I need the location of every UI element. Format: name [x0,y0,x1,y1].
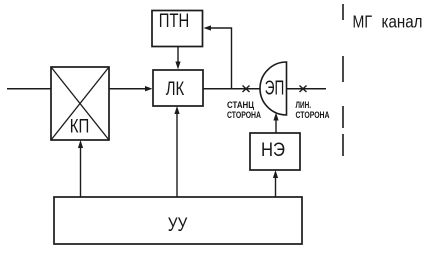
block NE (НЭ) [250,133,300,170]
label STANC STORONA [227,100,261,120]
svg-text:ПТН: ПТН [159,10,190,32]
svg-text:КП: КП [70,115,90,137]
label LIN STORONA [296,100,330,120]
svg-text:СТАНЦ: СТАНЦ [227,100,254,110]
block UU (УУ) [54,197,302,244]
block KP (КП crossed square) [51,67,109,140]
wire feedback junction up to PTN with left arrowhead [204,25,232,88]
svg-text:ЛК: ЛК [166,78,185,100]
block EP (ЭП half-disc) [260,62,286,115]
wire KP to LK with arrowhead [109,86,153,91]
dashed boundary line MG channel [342,4,344,156]
svg-text:УУ: УУ [168,214,188,236]
svg-text:МГ: МГ [353,12,373,32]
wire PTN to LK with down arrowhead [175,47,180,70]
svg-text:НЭ: НЭ [261,139,285,161]
wire input left stub [7,88,51,90]
wire UU to NE with up arrowhead [273,170,278,197]
wire UU to LK with up arrowhead [174,106,179,197]
svg-text:СТОРОНА: СТОРОНА [227,110,261,120]
wire EP to line side [287,88,327,90]
svg-text:канал: канал [382,12,423,32]
cross mark X1 on station side [243,86,250,93]
svg-text:ЛИН.: ЛИН. [296,100,312,110]
svg-text:ЭП: ЭП [265,77,285,99]
wire LK to EP [203,88,261,90]
block LK (ЛК) [153,70,203,106]
wire UU to KP with up arrowhead [78,140,83,197]
block PTN (ПТН) [152,10,203,46]
wire NE to EP with up arrowhead [273,113,278,134]
svg-text:СТОРОНА: СТОРОНА [296,110,330,120]
cross mark X2 on line side [300,86,307,93]
